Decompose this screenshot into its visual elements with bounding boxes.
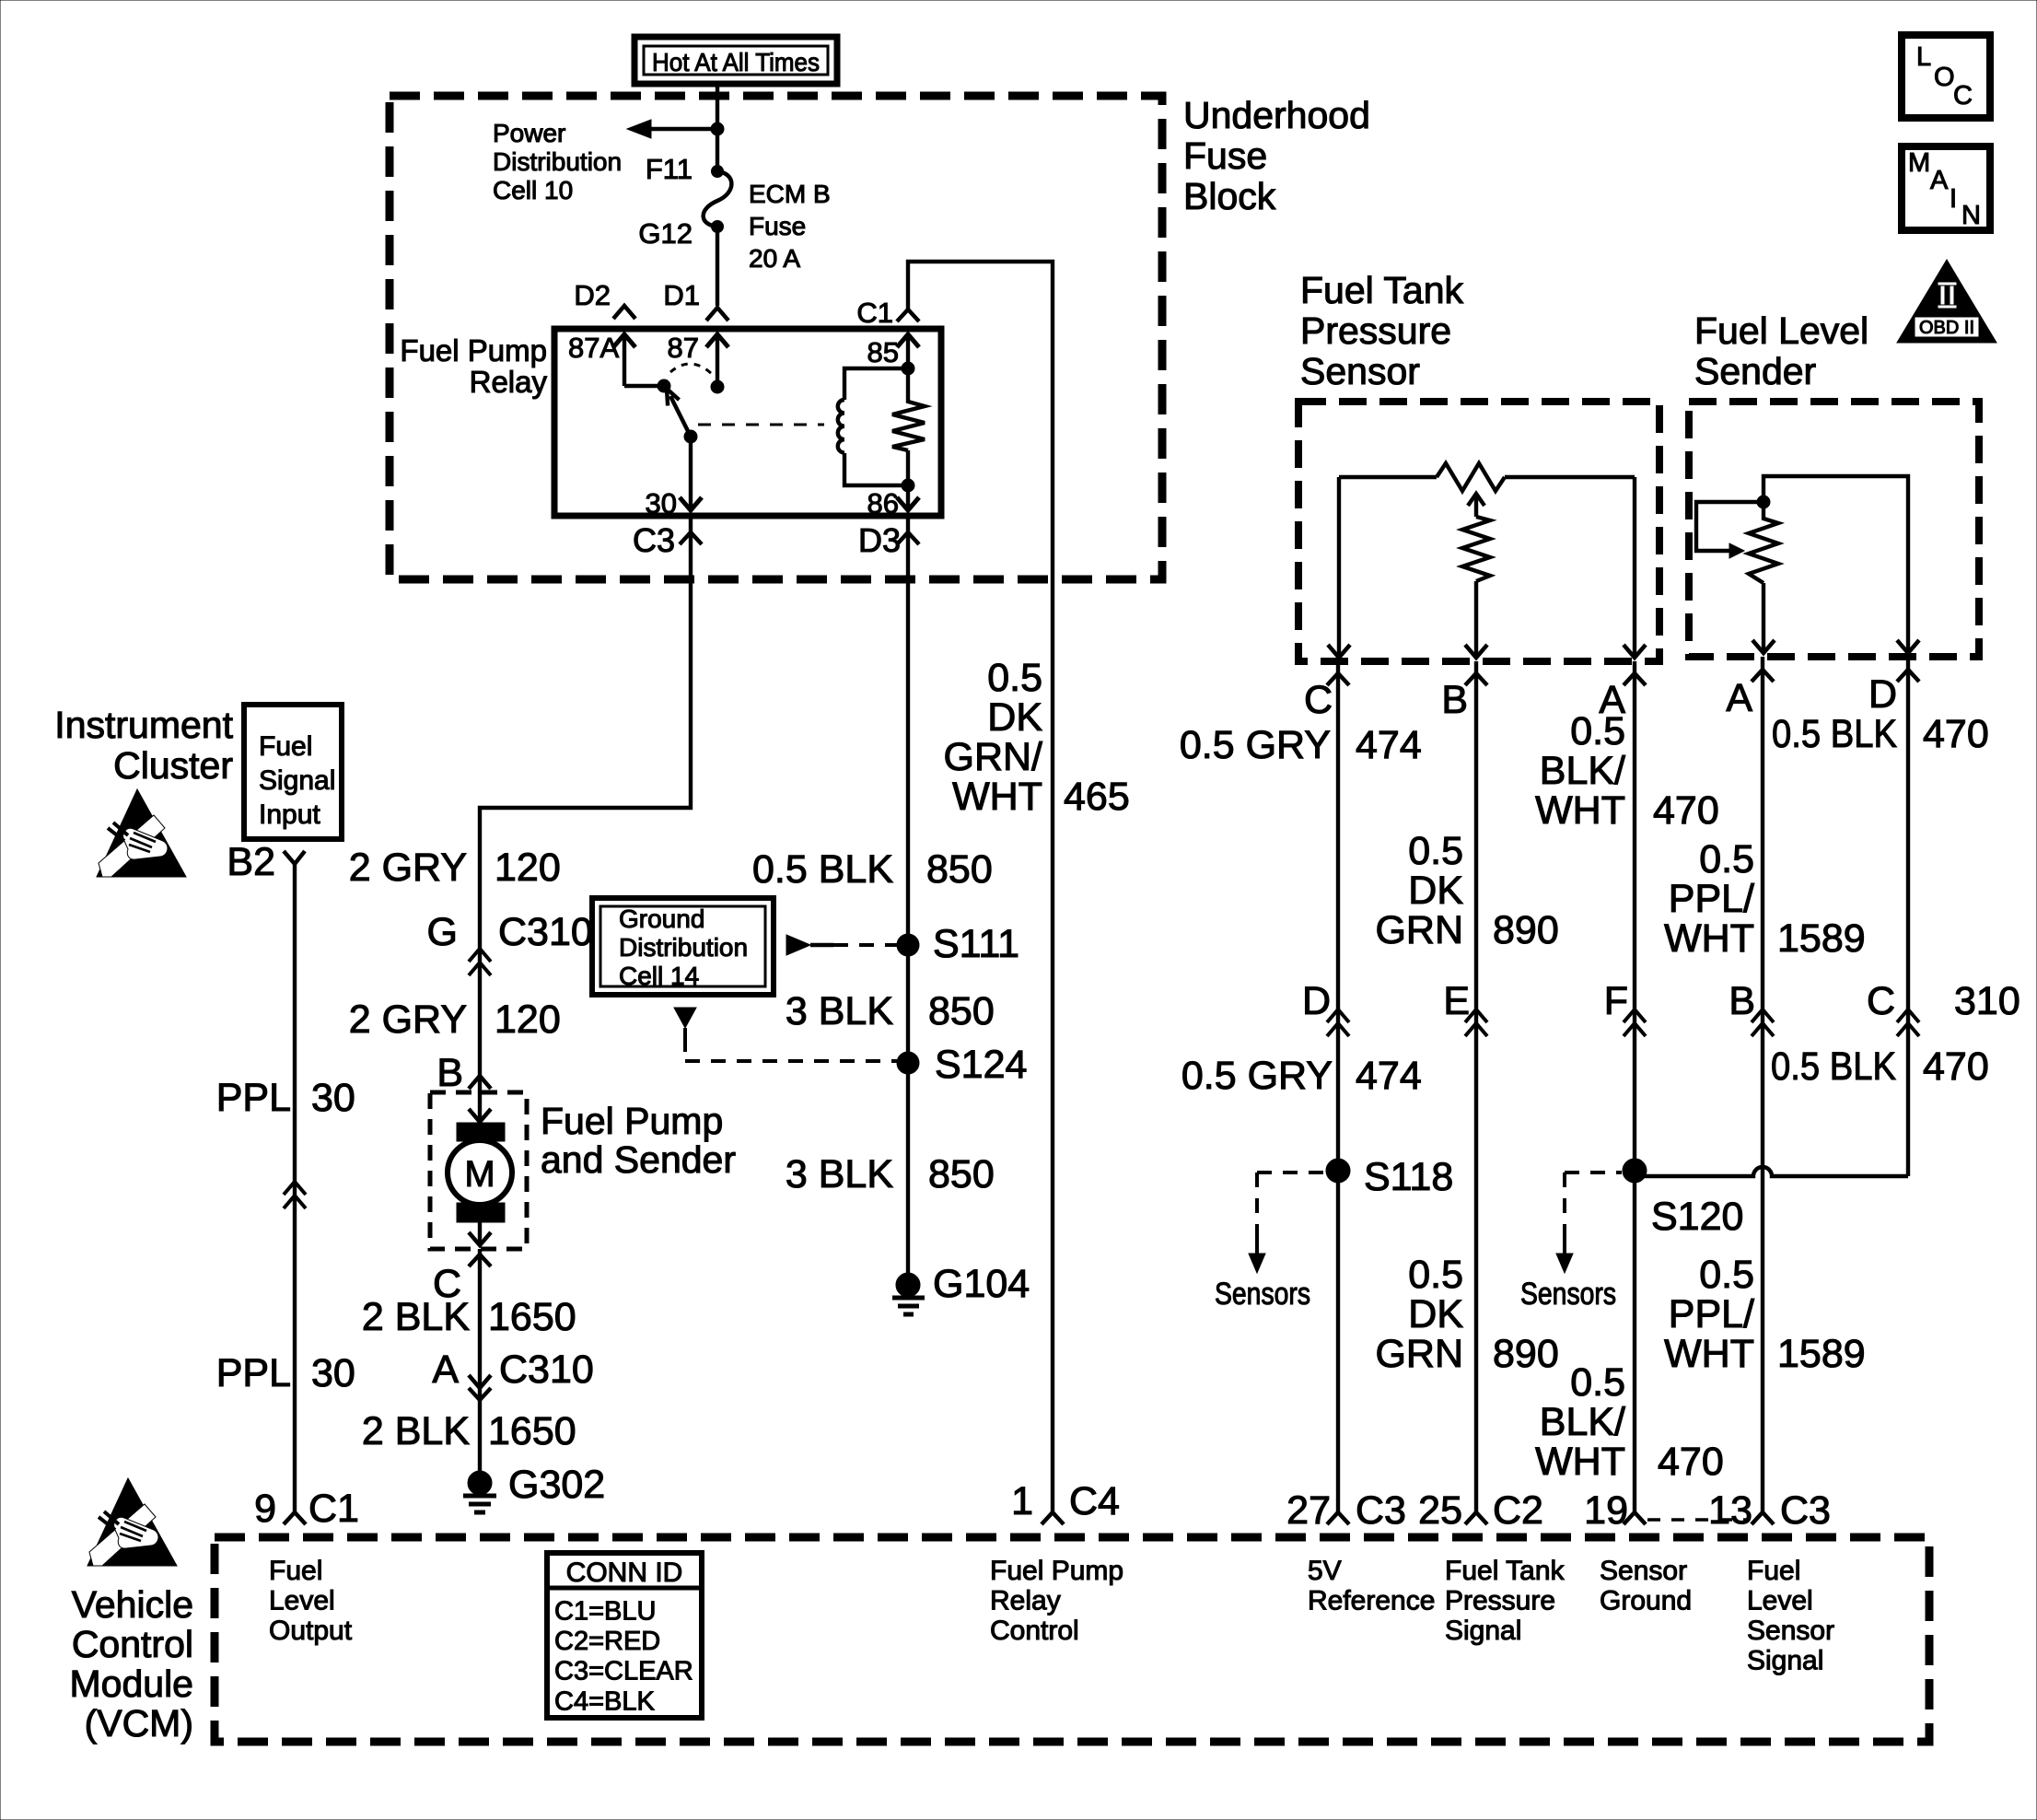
- svg-text:M: M: [464, 1154, 495, 1195]
- svg-text:C310: C310: [499, 1347, 594, 1392]
- svg-text:850: 850: [928, 989, 995, 1033]
- svg-text:OBD II: OBD II: [1919, 318, 1974, 338]
- svg-text:Fuel Pump: Fuel Pump: [541, 1100, 723, 1142]
- svg-text:Pressure: Pressure: [1300, 309, 1451, 352]
- svg-text:470: 470: [1923, 712, 1989, 756]
- svg-text:S124: S124: [935, 1043, 1027, 1087]
- svg-text:1650: 1650: [488, 1409, 576, 1453]
- svg-text:Level: Level: [269, 1586, 335, 1616]
- svg-text:0.5 BLK: 0.5 BLK: [1772, 712, 1897, 756]
- svg-text:20 A: 20 A: [749, 244, 800, 273]
- svg-text:O: O: [1934, 63, 1955, 92]
- svg-text:5V: 5V: [1308, 1556, 1342, 1586]
- svg-text:850: 850: [926, 847, 993, 892]
- svg-text:G104: G104: [933, 1262, 1030, 1306]
- svg-text:PPL/: PPL/: [1669, 877, 1754, 921]
- svg-text:Control: Control: [72, 1623, 193, 1665]
- svg-text:Fuel Tank: Fuel Tank: [1300, 269, 1464, 311]
- svg-text:Ground: Ground: [619, 904, 704, 933]
- svg-text:A: A: [1930, 166, 1949, 195]
- svg-text:A: A: [1726, 676, 1752, 720]
- svg-text:0.5: 0.5: [987, 656, 1042, 700]
- svg-text:B: B: [1441, 678, 1468, 722]
- svg-text:25: 25: [1418, 1488, 1462, 1533]
- svg-text:Fuel: Fuel: [269, 1556, 322, 1586]
- svg-text:DK: DK: [1408, 1292, 1463, 1336]
- svg-text:B2: B2: [227, 840, 275, 884]
- svg-text:D: D: [1868, 672, 1897, 717]
- svg-text:13: 13: [1708, 1488, 1752, 1533]
- svg-text:ECM B: ECM B: [749, 180, 831, 208]
- svg-text:S120: S120: [1651, 1195, 1743, 1239]
- svg-text:Power: Power: [493, 119, 565, 147]
- svg-text:Sensor: Sensor: [1600, 1556, 1687, 1586]
- svg-text:2 BLK: 2 BLK: [362, 1295, 470, 1339]
- svg-text:G: G: [427, 910, 458, 954]
- svg-text:C1: C1: [856, 297, 893, 329]
- svg-text:C2=RED: C2=RED: [554, 1627, 660, 1656]
- svg-text:Fuse: Fuse: [749, 212, 806, 240]
- svg-text:Fuel: Fuel: [259, 731, 312, 762]
- svg-text:0.5: 0.5: [1699, 837, 1754, 881]
- svg-text:C3=CLEAR: C3=CLEAR: [554, 1657, 693, 1686]
- svg-text:M: M: [1908, 148, 1930, 178]
- svg-text:1589: 1589: [1777, 1332, 1866, 1376]
- svg-text:Underhood: Underhood: [1183, 94, 1370, 136]
- svg-text:C: C: [1953, 81, 1973, 111]
- svg-text:Cluster: Cluster: [113, 744, 233, 787]
- svg-text:C1=BLU: C1=BLU: [554, 1597, 656, 1627]
- svg-text:Distribution: Distribution: [493, 147, 622, 176]
- svg-text:WHT: WHT: [1535, 1440, 1625, 1484]
- svg-text:and Sender: and Sender: [541, 1138, 736, 1181]
- svg-text:Signal: Signal: [259, 765, 335, 796]
- svg-text:Reference: Reference: [1308, 1586, 1435, 1616]
- svg-text:0.5: 0.5: [1570, 709, 1625, 753]
- svg-text:D1: D1: [663, 279, 700, 311]
- svg-text:C: C: [1304, 678, 1333, 722]
- svg-text:Hot At All Times: Hot At All Times: [652, 48, 820, 76]
- svg-text:Level: Level: [1747, 1586, 1813, 1616]
- svg-text:0.5 GRY: 0.5 GRY: [1180, 723, 1331, 767]
- svg-text:L: L: [1916, 42, 1931, 72]
- svg-text:Signal: Signal: [1747, 1646, 1823, 1676]
- svg-text:C4=BLK: C4=BLK: [554, 1686, 655, 1716]
- svg-text:0.5: 0.5: [1408, 1253, 1463, 1297]
- svg-text:C3: C3: [1780, 1488, 1831, 1533]
- svg-text:Cell 10: Cell 10: [493, 176, 573, 204]
- svg-text:A: A: [432, 1347, 459, 1392]
- svg-text:30: 30: [311, 1351, 355, 1395]
- svg-text:CONN ID: CONN ID: [566, 1557, 683, 1588]
- svg-text:Pressure: Pressure: [1445, 1586, 1555, 1616]
- svg-text:Output: Output: [269, 1616, 353, 1646]
- svg-text:Sensors: Sensors: [1215, 1277, 1310, 1312]
- svg-text:B: B: [1729, 979, 1755, 1023]
- svg-text:87A: 87A: [568, 332, 619, 364]
- svg-text:Fuel Level: Fuel Level: [1694, 309, 1868, 352]
- svg-text:D: D: [1302, 979, 1331, 1023]
- svg-text:9: 9: [254, 1487, 276, 1531]
- svg-text:N: N: [1961, 201, 1981, 230]
- svg-text:C4: C4: [1069, 1479, 1120, 1523]
- svg-text:Distribution: Distribution: [619, 933, 748, 962]
- svg-text:C310: C310: [498, 910, 593, 954]
- svg-text:30: 30: [646, 487, 677, 519]
- svg-text:GRN: GRN: [1375, 1332, 1463, 1376]
- svg-text:470: 470: [1658, 1440, 1724, 1484]
- svg-text:PPL: PPL: [216, 1351, 291, 1395]
- svg-text:BLK/: BLK/: [1540, 1400, 1625, 1444]
- svg-text:Sensors: Sensors: [1520, 1277, 1616, 1312]
- svg-text:Sender: Sender: [1694, 350, 1816, 392]
- svg-text:Fuel: Fuel: [1747, 1556, 1800, 1586]
- svg-text:D3: D3: [858, 521, 901, 559]
- svg-text:(VCM): (VCM): [85, 1702, 193, 1744]
- svg-text:Cell 14: Cell 14: [619, 962, 699, 990]
- svg-text:Block: Block: [1183, 175, 1276, 217]
- svg-text:2 GRY: 2 GRY: [349, 997, 467, 1042]
- svg-text:Instrument: Instrument: [54, 704, 233, 746]
- svg-text:890: 890: [1493, 1332, 1559, 1376]
- svg-text:2 BLK: 2 BLK: [362, 1409, 470, 1453]
- svg-text:Input: Input: [259, 799, 320, 830]
- svg-text:Ground: Ground: [1600, 1586, 1692, 1616]
- svg-text:GRN: GRN: [1375, 908, 1463, 952]
- svg-text:0.5: 0.5: [1570, 1360, 1625, 1405]
- svg-text:0.5 GRY: 0.5 GRY: [1181, 1054, 1333, 1098]
- svg-text:Relay: Relay: [990, 1586, 1061, 1616]
- svg-text:Fuel Tank: Fuel Tank: [1445, 1556, 1566, 1586]
- svg-text:Sensor: Sensor: [1747, 1616, 1834, 1646]
- svg-text:F: F: [1604, 979, 1628, 1023]
- svg-text:1: 1: [1011, 1479, 1033, 1523]
- svg-text:Control: Control: [990, 1616, 1079, 1646]
- svg-text:Fuse: Fuse: [1183, 134, 1267, 177]
- svg-text:27: 27: [1286, 1488, 1331, 1533]
- svg-text:Fuel Pump: Fuel Pump: [990, 1556, 1123, 1586]
- svg-text:D2: D2: [574, 279, 611, 311]
- svg-text:PPL/: PPL/: [1669, 1292, 1754, 1336]
- svg-text:87: 87: [668, 332, 699, 364]
- svg-text:G12: G12: [638, 217, 693, 250]
- svg-text:850: 850: [928, 1152, 995, 1196]
- svg-text:Sensor: Sensor: [1300, 350, 1420, 392]
- svg-text:0.5: 0.5: [1699, 1253, 1754, 1297]
- svg-text:C1: C1: [308, 1487, 359, 1531]
- svg-text:120: 120: [495, 846, 561, 890]
- svg-text:0.5 BLK: 0.5 BLK: [1771, 1044, 1896, 1089]
- svg-text:DK: DK: [987, 695, 1042, 740]
- svg-text:2 GRY: 2 GRY: [349, 846, 467, 890]
- svg-text:C3: C3: [633, 521, 675, 559]
- svg-text:B: B: [436, 1051, 463, 1095]
- svg-text:470: 470: [1653, 788, 1719, 833]
- svg-text:86: 86: [867, 487, 899, 519]
- svg-text:C2: C2: [1493, 1488, 1543, 1533]
- svg-text:C: C: [1867, 979, 1895, 1023]
- svg-text:F11: F11: [646, 153, 693, 185]
- svg-text:Fuel Pump: Fuel Pump: [400, 333, 547, 367]
- svg-text:890: 890: [1493, 908, 1559, 952]
- svg-text:3 BLK: 3 BLK: [786, 989, 893, 1033]
- svg-text:I: I: [1950, 184, 1957, 214]
- svg-text:WHT: WHT: [952, 775, 1042, 819]
- svg-text:310: 310: [1954, 979, 2020, 1023]
- svg-text:S111: S111: [933, 922, 1019, 966]
- svg-text:WHT: WHT: [1664, 916, 1754, 961]
- svg-text:3 BLK: 3 BLK: [786, 1152, 893, 1196]
- svg-text:1589: 1589: [1777, 916, 1866, 961]
- svg-text:E: E: [1443, 979, 1470, 1023]
- svg-text:S118: S118: [1364, 1155, 1453, 1199]
- svg-text:WHT: WHT: [1535, 788, 1625, 833]
- svg-text:DK: DK: [1408, 869, 1463, 913]
- svg-text:474: 474: [1356, 1054, 1422, 1098]
- svg-text:30: 30: [311, 1076, 355, 1120]
- svg-text:GRN/: GRN/: [944, 735, 1043, 779]
- svg-text:120: 120: [495, 997, 561, 1042]
- svg-text:Relay: Relay: [470, 365, 548, 399]
- svg-text:Vehicle: Vehicle: [72, 1583, 193, 1626]
- svg-text:C3: C3: [1356, 1488, 1406, 1533]
- svg-text:0.5: 0.5: [1408, 829, 1463, 873]
- svg-text:0.5 BLK: 0.5 BLK: [752, 847, 893, 892]
- svg-text:PPL: PPL: [216, 1076, 291, 1120]
- svg-text:WHT: WHT: [1664, 1332, 1754, 1376]
- svg-text:Module: Module: [70, 1662, 193, 1705]
- svg-text:465: 465: [1064, 775, 1130, 819]
- svg-text:BLK/: BLK/: [1540, 749, 1625, 793]
- svg-text:85: 85: [867, 336, 899, 368]
- svg-text:Signal: Signal: [1445, 1616, 1521, 1646]
- svg-text:19: 19: [1584, 1488, 1628, 1533]
- svg-text:474: 474: [1356, 723, 1422, 767]
- svg-text:470: 470: [1923, 1044, 1989, 1089]
- svg-text:1650: 1650: [488, 1295, 576, 1339]
- svg-text:G302: G302: [508, 1463, 605, 1507]
